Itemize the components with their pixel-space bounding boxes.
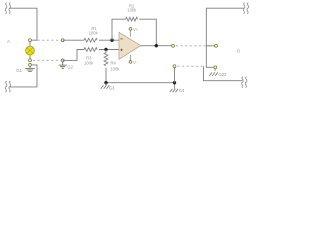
svg-text:R3: R3	[86, 55, 92, 60]
svg-text:V-: V-	[133, 60, 138, 65]
svg-text:G1: G1	[16, 68, 22, 73]
wire N4 up to pin N5	[174, 67, 176, 82]
wire R4 to bottom rail	[106, 68, 175, 83]
ground G4	[170, 84, 185, 93]
junction dot output node	[155, 44, 158, 47]
part A body (buzzer circle)	[26, 41, 35, 59]
wire N1 up to R2	[112, 19, 126, 40]
pin B1	[215, 44, 218, 47]
node P2	[61, 59, 64, 62]
svg-text:G4: G4	[179, 88, 185, 93]
svg-text:G2: G2	[67, 65, 73, 70]
wire R3 to non-inverting input	[99, 49, 120, 51]
wire stub to B pin1	[206, 45, 214, 47]
resistor R1	[84, 26, 99, 42]
pin A2	[29, 59, 32, 62]
junction dot node N2	[104, 48, 107, 51]
ratsnest OUT to B pin1	[176, 45, 210, 47]
tear mark top-left	[5, 3, 10, 14]
op-amp U1	[119, 27, 141, 65]
wire from ground G1 to bottom-left tear	[10, 65, 37, 87]
wire from top-left tear to part A pin1	[10, 8, 37, 40]
svg-text:100k: 100k	[84, 61, 94, 66]
ratsnest A1 to node P1	[33, 39, 61, 41]
svg-text:R4: R4	[111, 60, 117, 65]
svg-text:100k: 100k	[110, 67, 120, 72]
wire R1 to inverting input	[99, 39, 120, 41]
wire from top-right tear down to part B pin2	[206, 8, 243, 67]
wire end pin OUT	[172, 44, 175, 47]
svg-text:V+: V+	[133, 27, 139, 32]
svg-text:B: B	[237, 49, 240, 54]
junction dot node N4	[173, 81, 176, 84]
resistor R2	[126, 3, 138, 21]
tear mark bottom-left	[5, 81, 10, 92]
tear mark top-right	[243, 3, 248, 14]
junction dot node N3	[104, 81, 107, 84]
svg-text:100k: 100k	[127, 8, 137, 13]
svg-text:G22: G22	[219, 72, 228, 77]
ratsnest N5 to B pin2	[178, 65, 204, 67]
junction dot node N1	[110, 39, 113, 42]
svg-text:100k: 100k	[89, 31, 99, 36]
ground G2	[59, 62, 74, 70]
pin node N5	[173, 65, 176, 68]
wire P2 up to R3	[63, 50, 84, 61]
ground G22	[209, 69, 227, 77]
tear mark bottom-right	[241, 77, 246, 88]
wire R2 to output junction	[139, 19, 156, 46]
wire P1 to R1	[63, 39, 84, 41]
resistor R3	[84, 48, 97, 66]
ground G1	[16, 63, 35, 73]
resistor R4	[104, 50, 120, 72]
wire op-amp output	[141, 45, 173, 47]
node P1	[61, 39, 64, 42]
svg-text:G3: G3	[109, 85, 115, 90]
wire from ratsnest corner down to bottom-right tear	[203, 66, 242, 81]
pin B2	[214, 66, 217, 69]
ratsnest A2 to node P2	[33, 59, 61, 61]
pin A1	[29, 39, 32, 42]
ground G3	[101, 83, 115, 90]
